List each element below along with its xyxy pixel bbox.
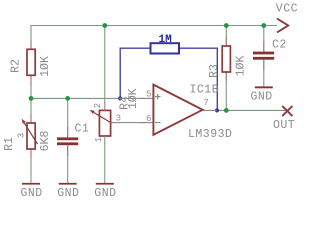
svg-text:C1: C1	[75, 123, 90, 136]
svg-text:1M: 1M	[159, 34, 173, 46]
svg-text:7: 7	[204, 98, 209, 108]
op-amp IC1B pins 5,6 red stubs	[141, 97, 154, 99]
svg-text:IC1B: IC1B	[190, 84, 220, 97]
svg-text:R1: R1	[3, 137, 16, 151]
ground R1 bar	[22, 183, 40, 185]
svg-text:3: 3	[17, 133, 27, 138]
resistor R1 box	[27, 123, 35, 149]
svg-text:R3: R3	[208, 64, 221, 78]
op-amp IC1B triangle	[153, 85, 202, 135]
resistor R1M box	[151, 43, 180, 53]
capacitor C2 plates	[253, 52, 274, 55]
wire 1M left blue	[120, 48, 150, 98]
supply VCC arrow	[277, 19, 288, 33]
ground C2 bar	[255, 86, 273, 88]
wire R2 bottom to node	[30, 75, 32, 98]
svg-text:1ØK: 1ØK	[39, 56, 52, 77]
svg-text:C2: C2	[272, 39, 287, 52]
node blue junction +input/1M	[118, 96, 122, 100]
wire C1 bottom to GND	[67, 145, 69, 183]
resistor R2 box	[27, 49, 35, 75]
op-amp IC1B output pin 7	[203, 109, 217, 111]
wire +input net	[31, 97, 145, 99]
svg-text:6: 6	[146, 114, 151, 124]
plus sign	[155, 94, 161, 100]
svg-text:5: 5	[146, 89, 151, 99]
node junction C2/rail	[261, 23, 266, 28]
wire C1 top	[67, 98, 69, 137]
capacitor C1 plates	[57, 137, 78, 140]
node junction C1	[65, 96, 70, 101]
wire R3 top	[225, 26, 227, 47]
wire R1 bottom to GND	[30, 149, 32, 183]
svg-text:1ØK: 1ØK	[127, 88, 140, 109]
wire C2 top	[263, 26, 265, 52]
resistor R2 leads	[30, 40, 32, 49]
potentiometer R4 box	[99, 110, 110, 136]
svg-text:GND: GND	[57, 187, 79, 200]
wire R1 top	[30, 98, 32, 123]
wire 1M right blue	[179, 48, 217, 110]
wire pot bottom to GND	[104, 143, 106, 183]
svg-text:6K8: 6K8	[39, 131, 52, 152]
svg-text:GND: GND	[251, 91, 273, 104]
resistor R3 box	[222, 46, 230, 72]
wire top VCC rail	[31, 26, 277, 50]
pin OUT cross	[282, 106, 292, 116]
wire C2 bottom to GND	[263, 60, 265, 87]
minus sign	[155, 122, 161, 124]
svg-text:VCC: VCC	[276, 3, 298, 16]
resistor R1 leads	[30, 113, 32, 123]
ground pot bar	[96, 183, 114, 185]
potentiometer R4 leads	[104, 102, 106, 110]
svg-text:3: 3	[116, 113, 121, 123]
svg-text:GND: GND	[94, 187, 116, 200]
node junction R3/output	[224, 108, 229, 113]
svg-text:OUT: OUT	[273, 119, 295, 132]
node junction R3/rail	[224, 23, 229, 28]
node junction divider R2/R1	[29, 96, 34, 101]
node blue junction output/1M	[215, 108, 219, 112]
svg-text:1ØK: 1ØK	[234, 56, 247, 77]
svg-text:LM393D: LM393D	[188, 128, 232, 141]
svg-text:GND: GND	[21, 187, 43, 200]
svg-text:1: 1	[94, 137, 104, 142]
ground C1 bar	[59, 183, 77, 185]
svg-text:R2: R2	[10, 59, 23, 73]
svg-text:2: 2	[93, 103, 103, 108]
wire R3 bottom	[225, 72, 227, 110]
wire output net	[217, 109, 288, 111]
potentiometer R4 wiper arrow	[94, 113, 111, 123]
capacitor C1 leads	[67, 127, 69, 137]
node junction pot/rail	[102, 23, 107, 28]
resistor R3 leads	[225, 37, 227, 46]
resistor R1 wiper arrow	[24, 123, 37, 144]
wire pot top from rail	[104, 26, 106, 104]
wire wiper to pin6	[119, 122, 145, 124]
capacitor C2 leads	[263, 41, 265, 52]
